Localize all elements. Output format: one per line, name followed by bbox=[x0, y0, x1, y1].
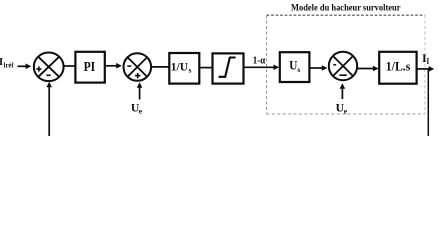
block Us bbox=[280, 52, 310, 82]
S3 minus sign bottom bbox=[339, 74, 346, 76]
wire S1 to PI block bbox=[63, 65, 76, 67]
node 1-alpha label bbox=[253, 55, 266, 67]
svg-text:Modele du hacheur survolteur: Modele du hacheur survolteur bbox=[291, 4, 401, 14]
wire feedback vertical into S1 from bottom bbox=[48, 86, 50, 137]
S2 plus sign bbox=[135, 73, 140, 78]
wire Ue arrow into S2 from below bbox=[139, 86, 141, 100]
S2 minus sign bbox=[127, 65, 131, 67]
node Il output label bbox=[422, 51, 430, 66]
node Ilref input label bbox=[0, 57, 14, 70]
wire 1/Us to saturation block bbox=[199, 67, 213, 69]
svg-text:1-α: 1-α bbox=[253, 55, 266, 67]
wire output arrow with Il label bbox=[417, 68, 429, 70]
block PI bbox=[75, 52, 104, 83]
svg-text:s: s bbox=[297, 65, 300, 74]
block saturation limiter bbox=[213, 53, 244, 83]
svg-text:s: s bbox=[189, 65, 192, 74]
svg-text:lréf: lréf bbox=[4, 61, 15, 69]
node Ue label under S3 bbox=[336, 101, 348, 116]
dashed model box bbox=[267, 15, 425, 114]
S1 minus sign bbox=[46, 74, 50, 76]
summing junction S2 bbox=[124, 53, 152, 81]
wire Ue arrow into S3 from below bbox=[341, 87, 343, 99]
wire output feedback vertical bbox=[427, 69, 429, 136]
svg-text:1/L.s: 1/L.s bbox=[386, 59, 411, 74]
svg-text:PI: PI bbox=[84, 59, 96, 74]
S3 minus sign left bbox=[333, 64, 336, 66]
summing junction S1 bbox=[34, 53, 64, 82]
svg-text:1/U: 1/U bbox=[171, 60, 189, 74]
block 1/Us bbox=[169, 53, 199, 84]
wire S3 to 1/L.s block bbox=[357, 68, 374, 70]
wire Us to summing junction S3 bbox=[310, 67, 322, 69]
summing junction S3 bbox=[329, 52, 357, 80]
wire input arrow into summing junction S1 bbox=[18, 65, 27, 67]
wire S2 to 1/Us block bbox=[152, 66, 170, 68]
wire PI to summing junction S2 bbox=[106, 65, 118, 67]
block 1/L.s bbox=[379, 52, 416, 84]
node Ue label under S2 bbox=[131, 101, 143, 116]
S1 plus sign bbox=[36, 66, 41, 71]
wire saturation to Us block with 1-alpha bbox=[243, 66, 274, 68]
